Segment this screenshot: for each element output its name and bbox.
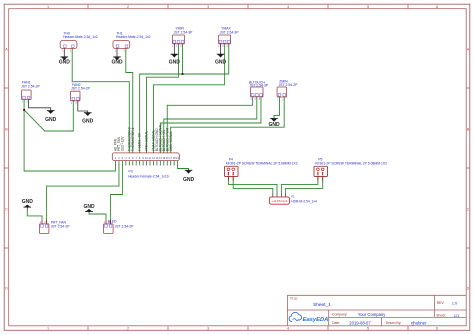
wire YMAX pin1 to ground bbox=[220, 44, 222, 54]
svg-text:1: 1 bbox=[115, 156, 117, 160]
ground GND at FAN2 bbox=[82, 113, 94, 125]
wire BLTOUCH pin3 to P3 pin14 bbox=[160, 97, 261, 153]
wire YMIN pin3 down to +5V net bbox=[182, 44, 184, 74]
svg-text:D: D bbox=[5, 286, 8, 290]
svg-text:7: 7 bbox=[135, 156, 137, 160]
svg-text:rjhubner: rjhubner bbox=[411, 320, 427, 325]
wire ZMIN pin2 to P3 pin17 (ZMIN SIGNAL) bbox=[171, 97, 285, 153]
svg-text:HDR-M-2.54_1x4: HDR-M-2.54_1x4 bbox=[291, 200, 317, 204]
svg-text:B: B bbox=[5, 127, 8, 131]
svg-text:3: 3 bbox=[227, 46, 229, 48]
connector TH0 Header-Male-2.54_1x2 bbox=[60, 31, 98, 52]
svg-text:Drawn By:: Drawn By: bbox=[386, 321, 402, 325]
svg-text:2: 2 bbox=[255, 99, 257, 101]
wire diagonal FAN1 junction to FAN2 branch bbox=[24, 101, 73, 131]
svg-text:GND: GND bbox=[22, 199, 34, 205]
svg-text:6: 6 bbox=[436, 327, 438, 331]
svg-text:Your Company: Your Company bbox=[358, 312, 386, 317]
svg-text:GND: GND bbox=[45, 117, 57, 123]
svg-text:JST 2.54-2P: JST 2.54-2P bbox=[71, 87, 91, 91]
svg-text:KF301-2P SCREW TERMINAL 2P 5.0: KF301-2P SCREW TERMINAL 2P 5.08MM 1X2 bbox=[315, 161, 387, 165]
svg-text:5: 5 bbox=[129, 156, 131, 160]
wire P3 pin2 to PRT_FAN pin2 bbox=[47, 165, 119, 224]
svg-text:2: 2 bbox=[123, 50, 125, 52]
ground GND at BLED (up) bbox=[83, 204, 95, 212]
svg-text:GND: GND bbox=[268, 122, 280, 128]
wire FAN1 pin1 down to P3 pin1 bbox=[24, 100, 115, 171]
svg-text:REV:: REV: bbox=[437, 301, 445, 305]
svg-text:JST 2.54-3P: JST 2.54-3P bbox=[220, 30, 240, 34]
svg-text:6: 6 bbox=[132, 156, 134, 160]
svg-text:3: 3 bbox=[207, 327, 209, 331]
svg-text:2019-08-07: 2019-08-07 bbox=[349, 320, 371, 325]
svg-text:2: 2 bbox=[282, 99, 284, 101]
wire YMIN pin1 to ground bbox=[173, 44, 175, 54]
svg-text:YMIN SIGNAL: YMIN SIGNAL bbox=[145, 131, 149, 152]
svg-text:JST 2.54-3P: JST 2.54-3P bbox=[249, 84, 269, 88]
wire P4 pin1 to P2 pin2 bbox=[228, 177, 277, 193]
svg-text:JST 2.54-3P: JST 2.54-3P bbox=[174, 30, 194, 34]
svg-text:Header-Male-2.54_1x2: Header-Male-2.54_1x2 bbox=[63, 35, 98, 39]
connector BLTOUCH JST 2.54-3P bbox=[249, 80, 269, 101]
svg-text:2: 2 bbox=[176, 46, 178, 48]
ground GND at FAN1 bbox=[45, 111, 57, 123]
svg-text:1: 1 bbox=[62, 50, 64, 52]
svg-text:KF301-2P SCREW TERMINAL 2P 5.0: KF301-2P SCREW TERMINAL 2P 5.08MM 1X2 bbox=[226, 161, 298, 165]
svg-text:C: C bbox=[467, 207, 470, 211]
svg-text:GND: GND bbox=[111, 60, 123, 66]
svg-text:Sheet:: Sheet: bbox=[436, 314, 446, 318]
svg-text:3: 3 bbox=[122, 156, 124, 160]
svg-text:C: C bbox=[5, 207, 8, 211]
svg-text:1/1: 1/1 bbox=[454, 313, 460, 318]
svg-text:A: A bbox=[5, 47, 8, 51]
junction Y +5V net at YMIN pin3 bbox=[181, 73, 183, 75]
connector ZMIN JST 2.54-2P bbox=[277, 80, 298, 102]
svg-text:2: 2 bbox=[118, 156, 120, 160]
svg-text:GND: GND bbox=[59, 60, 71, 66]
svg-text:8: 8 bbox=[139, 156, 141, 160]
wire YMIN pin2 to P3 pin10 (YMIN SIGNAL) bbox=[147, 44, 179, 153]
svg-text:P3: P3 bbox=[129, 169, 133, 173]
title block bbox=[287, 295, 466, 326]
svg-text:JST 2.54-2P: JST 2.54-2P bbox=[51, 224, 71, 228]
svg-text:4: 4 bbox=[125, 156, 127, 160]
connector YMIN JST 2.54-3P bbox=[172, 27, 193, 48]
svg-text:1: 1 bbox=[218, 46, 220, 48]
wire GND to PRT_FAN pin1 bbox=[26, 207, 28, 211]
connector TH1 Header-Male-2.54_1x2 bbox=[113, 31, 151, 52]
svg-text:GND: GND bbox=[169, 59, 181, 65]
wire P5 pin1 to P2 pin3 bbox=[281, 177, 318, 193]
svg-text:JST 2.54-2P: JST 2.54-2P bbox=[115, 224, 135, 228]
svg-text:LED +12V: LED +12V bbox=[121, 136, 125, 151]
connector BLED JST 2.54-2P bbox=[104, 220, 135, 234]
svg-text:GND: GND bbox=[82, 118, 94, 124]
ground GND at P3 bbox=[183, 170, 195, 183]
svg-text:1: 1 bbox=[115, 50, 117, 52]
ground GND at YMAX bbox=[215, 54, 227, 65]
svg-text:4: 4 bbox=[287, 327, 289, 331]
svg-text:1: 1 bbox=[277, 99, 279, 101]
svg-text:JST 2.54-2P: JST 2.54-2P bbox=[21, 84, 41, 88]
wire P5 pin2 to P2 pin4 bbox=[286, 177, 323, 193]
svg-text:1: 1 bbox=[71, 103, 73, 105]
ground GND at PRT_FAN (up) bbox=[22, 199, 34, 207]
svg-text:6: 6 bbox=[436, 5, 438, 9]
svg-text:TITLE:: TITLE: bbox=[290, 297, 299, 301]
svg-text:2: 2 bbox=[127, 327, 129, 331]
svg-text:4: 4 bbox=[287, 5, 289, 9]
svg-text:ZMIN SIGNAL: ZMIN SIGNAL bbox=[169, 131, 173, 152]
wire P3 pin19 to ground bbox=[178, 165, 189, 170]
connector P3 Header-Female-2.54_1x19 bbox=[112, 153, 179, 178]
svg-text:1: 1 bbox=[47, 5, 49, 9]
wire TH1 pin1 to ground bbox=[116, 48, 118, 57]
svg-text:D: D bbox=[467, 286, 470, 290]
wire BLTOUCH pin2 to P3 pin15 bbox=[164, 97, 257, 153]
connector P4 KF301-2P screw terminal bbox=[225, 157, 298, 180]
connector FAN2 JST 2.54-2P bbox=[71, 83, 91, 105]
svg-text:1.0: 1.0 bbox=[452, 301, 458, 306]
EasyEDA logo bbox=[289, 312, 328, 323]
junction FAN net at FAN1 pin1 bbox=[23, 109, 25, 111]
svg-text:GND: GND bbox=[183, 177, 195, 183]
svg-text:BLED: BLED bbox=[108, 220, 117, 224]
wire FAN2 pin2 to ground bbox=[78, 101, 88, 113]
net labels on P3 pins bbox=[114, 124, 173, 152]
svg-text:GND: GND bbox=[83, 204, 95, 210]
connector FAN1 JST 2.54-2P bbox=[21, 80, 41, 103]
wire TH1 pin2 to P3 pin6 (THERMISTOR-1) bbox=[126, 48, 133, 152]
svg-text:1: 1 bbox=[172, 46, 174, 48]
svg-text:B: B bbox=[467, 127, 470, 131]
svg-text:2: 2 bbox=[222, 46, 224, 48]
wire FAN1 pin2 to ground bbox=[29, 100, 51, 111]
wire Y +5V net horizontal YMAX pin3 to P3 pin8 bbox=[140, 44, 229, 153]
svg-text:Company:: Company: bbox=[332, 313, 348, 317]
svg-text:3: 3 bbox=[180, 46, 182, 48]
ground GND at TH0 bbox=[59, 57, 71, 66]
svg-text:+12 PS-Input: +12 PS-Input bbox=[272, 199, 287, 203]
svg-text:3: 3 bbox=[259, 99, 261, 101]
svg-text:1: 1 bbox=[250, 99, 252, 101]
svg-text:5: 5 bbox=[367, 5, 369, 9]
connector P2 HDR-M-2.54_1x4 power input bbox=[269, 193, 317, 204]
svg-text:GND: GND bbox=[215, 59, 227, 65]
wire TH0 pin1 to ground bbox=[63, 48, 65, 57]
svg-text:9: 9 bbox=[142, 156, 144, 160]
svg-text:P2: P2 bbox=[291, 194, 295, 198]
svg-text:Date:: Date: bbox=[332, 321, 340, 325]
svg-text:Y SENS +5V: Y SENS +5V bbox=[138, 132, 142, 151]
svg-text:1: 1 bbox=[22, 102, 24, 104]
ground GND at ZMIN bbox=[268, 118, 280, 128]
connector P5 KF301-2P screw terminal bbox=[314, 157, 387, 180]
svg-text:JST 2.54-2P: JST 2.54-2P bbox=[279, 83, 299, 87]
ground GND at YMIN bbox=[169, 54, 181, 65]
wire GND to BLED pin1 bbox=[88, 212, 90, 214]
wire P3 pin3 to BLED pin2 bbox=[111, 165, 123, 224]
wire BLTOUCH pin1 to P3 pin16 bbox=[167, 97, 252, 153]
svg-text:3: 3 bbox=[207, 5, 209, 9]
svg-text:THERMISTOR-1: THERMISTOR-1 bbox=[131, 127, 135, 151]
svg-text:5: 5 bbox=[367, 327, 369, 331]
svg-text:Sheet_1: Sheet_1 bbox=[313, 302, 331, 308]
wire YMAX pin2 to P3 pin12 (YMAX SIGNAL) bbox=[153, 44, 224, 153]
svg-text:2: 2 bbox=[76, 103, 78, 105]
wire ZMIN pin1 to ground bbox=[274, 97, 280, 119]
connector PRT_FAN JST 2.54-2P bbox=[39, 220, 70, 234]
ground GND at TH1 bbox=[111, 57, 123, 66]
connector YMAX JST 2.54-3P bbox=[218, 27, 239, 48]
wire P4 pin2 to P2 pin1 bbox=[233, 177, 273, 193]
svg-text:2: 2 bbox=[26, 102, 28, 104]
svg-text:1: 1 bbox=[47, 327, 49, 331]
svg-text:2: 2 bbox=[127, 5, 129, 9]
svg-text:Header-Male-2.54_1x2: Header-Male-2.54_1x2 bbox=[116, 35, 151, 39]
svg-text:Header-Female-2.54_1x19: Header-Female-2.54_1x19 bbox=[128, 174, 169, 178]
svg-text:2: 2 bbox=[70, 50, 72, 52]
wire TH0 pin2 to P3 pin5 (THERMISTOR-0) bbox=[72, 48, 129, 152]
svg-text:EasyEDA: EasyEDA bbox=[303, 317, 329, 323]
svg-text:A: A bbox=[467, 47, 470, 51]
